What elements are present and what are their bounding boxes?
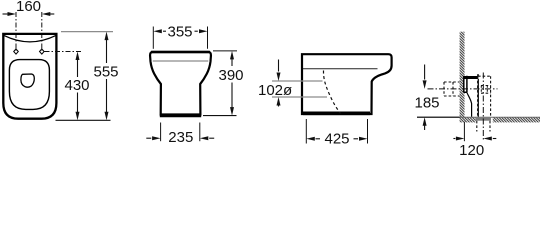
dim 102 upper arrow (down) [278,60,280,72]
centerline left hole [15,12,17,51]
svg-text:160: 160 [16,0,41,15]
dim 425 right arrow [354,138,359,140]
inner bowl outline [9,60,49,110]
svg-text:555: 555 [93,64,118,81]
floor hatch [460,117,476,122]
dim 185 bottom ref line [417,116,460,118]
dim 430 line top w/ up arrow [77,56,79,77]
dim 160 right arrow [45,13,55,15]
ext line 235 left [160,123,162,142]
elbow body [467,92,472,117]
wc body outline front [3,34,56,119]
bottom edge thick side [303,112,370,116]
elbow top plate [464,76,479,79]
ext line 425 right [367,119,369,144]
dim 555 line bottom w/ down arrow [106,79,108,115]
wc body outline side [302,54,392,114]
fixing hole right diamond [40,49,45,54]
ext line 390 top [213,50,237,52]
dashed horizontal outlet pipe through wall [444,82,460,96]
floor surface line [417,116,540,118]
dim 390 line bottom w/ down arrow [231,83,233,111]
floor baseline view1 [56,119,111,121]
top edge thick [151,51,210,54]
ext line 390 bottom (floor) [203,115,237,117]
elbow flange [464,76,467,93]
leader line 102 bottom (gray) [272,96,327,98]
horizontal centerline [428,88,498,90]
dim 185 top arrow (down) [424,65,426,80]
wall hatch [460,32,465,118]
ext line 120 (wall face) [463,122,465,142]
leader line 102 top (gray) [272,80,323,82]
wc body outline elevation [150,52,211,115]
centerline to 430 dim [45,51,82,53]
dim 185 bottom arrow (up) [424,126,426,131]
fixing hole left diamond [14,49,19,54]
dim 355 left arrow [163,30,166,32]
top extension line (gray) for 555 [61,31,113,33]
ext line 235 right [199,123,201,142]
dim 425 left arrow [316,138,321,140]
dim 102 lower arrow (up) [278,104,280,107]
ext line 355 right [207,27,209,49]
dim 120 right arrow [493,138,497,140]
dim 555 line top w/ up arrow [106,36,108,63]
dashed vertical outlet pipe [478,76,491,117]
dim 120 left arrow [453,138,455,140]
dim 355 right arrow [195,30,198,32]
svg-text:390: 390 [218,67,243,84]
svg-text:102ø: 102ø [258,82,292,99]
ext line 355 left [152,27,154,49]
pipe through floor gray block [476,117,491,121]
svg-text:430: 430 [64,77,89,94]
dim 235 left arrow [146,137,151,139]
dim 430 line bottom w/ down arrow [77,93,79,116]
svg-text:235: 235 [168,129,193,146]
dashed pipe below floor [477,121,490,132]
dim 160 left arrow [3,13,14,15]
front rim arc [4,36,56,42]
inner gray rim line [153,60,209,62]
svg-text:355: 355 [167,24,192,41]
ext line 425 left [305,119,307,144]
svg-text:120: 120 [459,142,484,156]
centerline right hole [41,12,43,51]
svg-text:185: 185 [414,95,439,112]
dim 235 right arrow [209,137,214,139]
dim 390 line top w/ up arrow [231,56,233,67]
water spot [21,74,34,87]
svg-text:425: 425 [324,131,349,148]
vertical centerline [482,73,484,141]
dashed trapway [323,71,340,114]
bottom edge thick [160,115,201,118]
rim feature line [303,68,378,70]
